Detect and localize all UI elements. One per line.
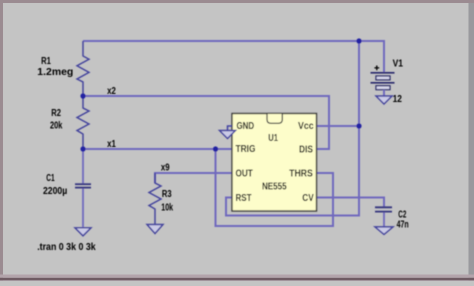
svg-text:V1: V1: [393, 58, 404, 69]
svg-text:R1: R1: [41, 56, 51, 67]
svg-text:10k: 10k: [161, 202, 173, 213]
wire top rail from R1 top to battery V1: [83, 41, 384, 73]
window frame left: [0, 0, 3, 281]
ground below C1: [75, 228, 91, 236]
wire THRS pin loop down and left to x1 node: [216, 149, 334, 226]
svg-text:12: 12: [393, 94, 403, 105]
svg-text:47n: 47n: [397, 219, 409, 230]
svg-text:R2: R2: [51, 108, 61, 119]
window frame bottom: [0, 275, 474, 278]
svg-text:2200µ: 2200µ: [43, 186, 67, 197]
svg-text:U1: U1: [268, 133, 278, 144]
svg-text:CV: CV: [302, 193, 313, 204]
svg-text:Vcc: Vcc: [298, 121, 314, 132]
wire node x1 from R2/C1 junction to TRIG pin: [83, 148, 232, 150]
svg-text:RST: RST: [236, 193, 253, 204]
window frame top: [0, 0, 474, 3]
window frame right: [469, 0, 474, 281]
ground below C2: [375, 227, 393, 235]
svg-text:x2: x2: [107, 86, 116, 97]
svg-text:.tran 0 3k 0 3k: .tran 0 3k 0 3k: [37, 242, 96, 253]
svg-text:C1: C1: [46, 173, 55, 184]
wire CV pin to C2: [317, 198, 385, 208]
plus sign of V1: [374, 66, 379, 71]
wire OUT pin to node x9 and R3: [155, 173, 232, 183]
ground at GND pin of U1: [220, 126, 236, 139]
svg-text:x1: x1: [107, 139, 116, 150]
capacitor C2: [375, 207, 392, 227]
battery V1: [371, 73, 395, 96]
svg-text:THRS: THRS: [289, 168, 313, 179]
svg-text:NE555: NE555: [262, 181, 287, 192]
resistor R3: [149, 173, 161, 224]
junction node at TRIG/THRS: [213, 146, 218, 151]
wire node x2 from R1/R2 junction to DIS pin: [83, 96, 329, 149]
ground below R3: [147, 225, 163, 234]
svg-text:DIS: DIS: [299, 144, 313, 155]
svg-text:GND: GND: [237, 121, 255, 132]
wire V+ rail down and around to RST pin: [226, 41, 359, 216]
resistor R2: [77, 96, 89, 149]
junction node x2: [80, 93, 85, 98]
wire Vcc pin to V+ rail: [317, 125, 360, 127]
resistor R1: [77, 41, 89, 96]
ground below V1: [376, 96, 392, 104]
junction node x1: [80, 146, 85, 151]
svg-text:x9: x9: [161, 162, 170, 173]
junction node at Vcc: [356, 123, 361, 128]
svg-text:TRIG: TRIG: [236, 144, 256, 155]
svg-text:OUT: OUT: [236, 168, 254, 179]
capacitor C1: [75, 149, 91, 227]
op-amp/IC body U1 NE555: [232, 114, 317, 212]
junction node at top rail / V1: [356, 38, 361, 43]
svg-text:20k: 20k: [50, 121, 63, 132]
svg-text:1.2meg: 1.2meg: [37, 67, 73, 78]
svg-text:R3: R3: [162, 189, 172, 200]
